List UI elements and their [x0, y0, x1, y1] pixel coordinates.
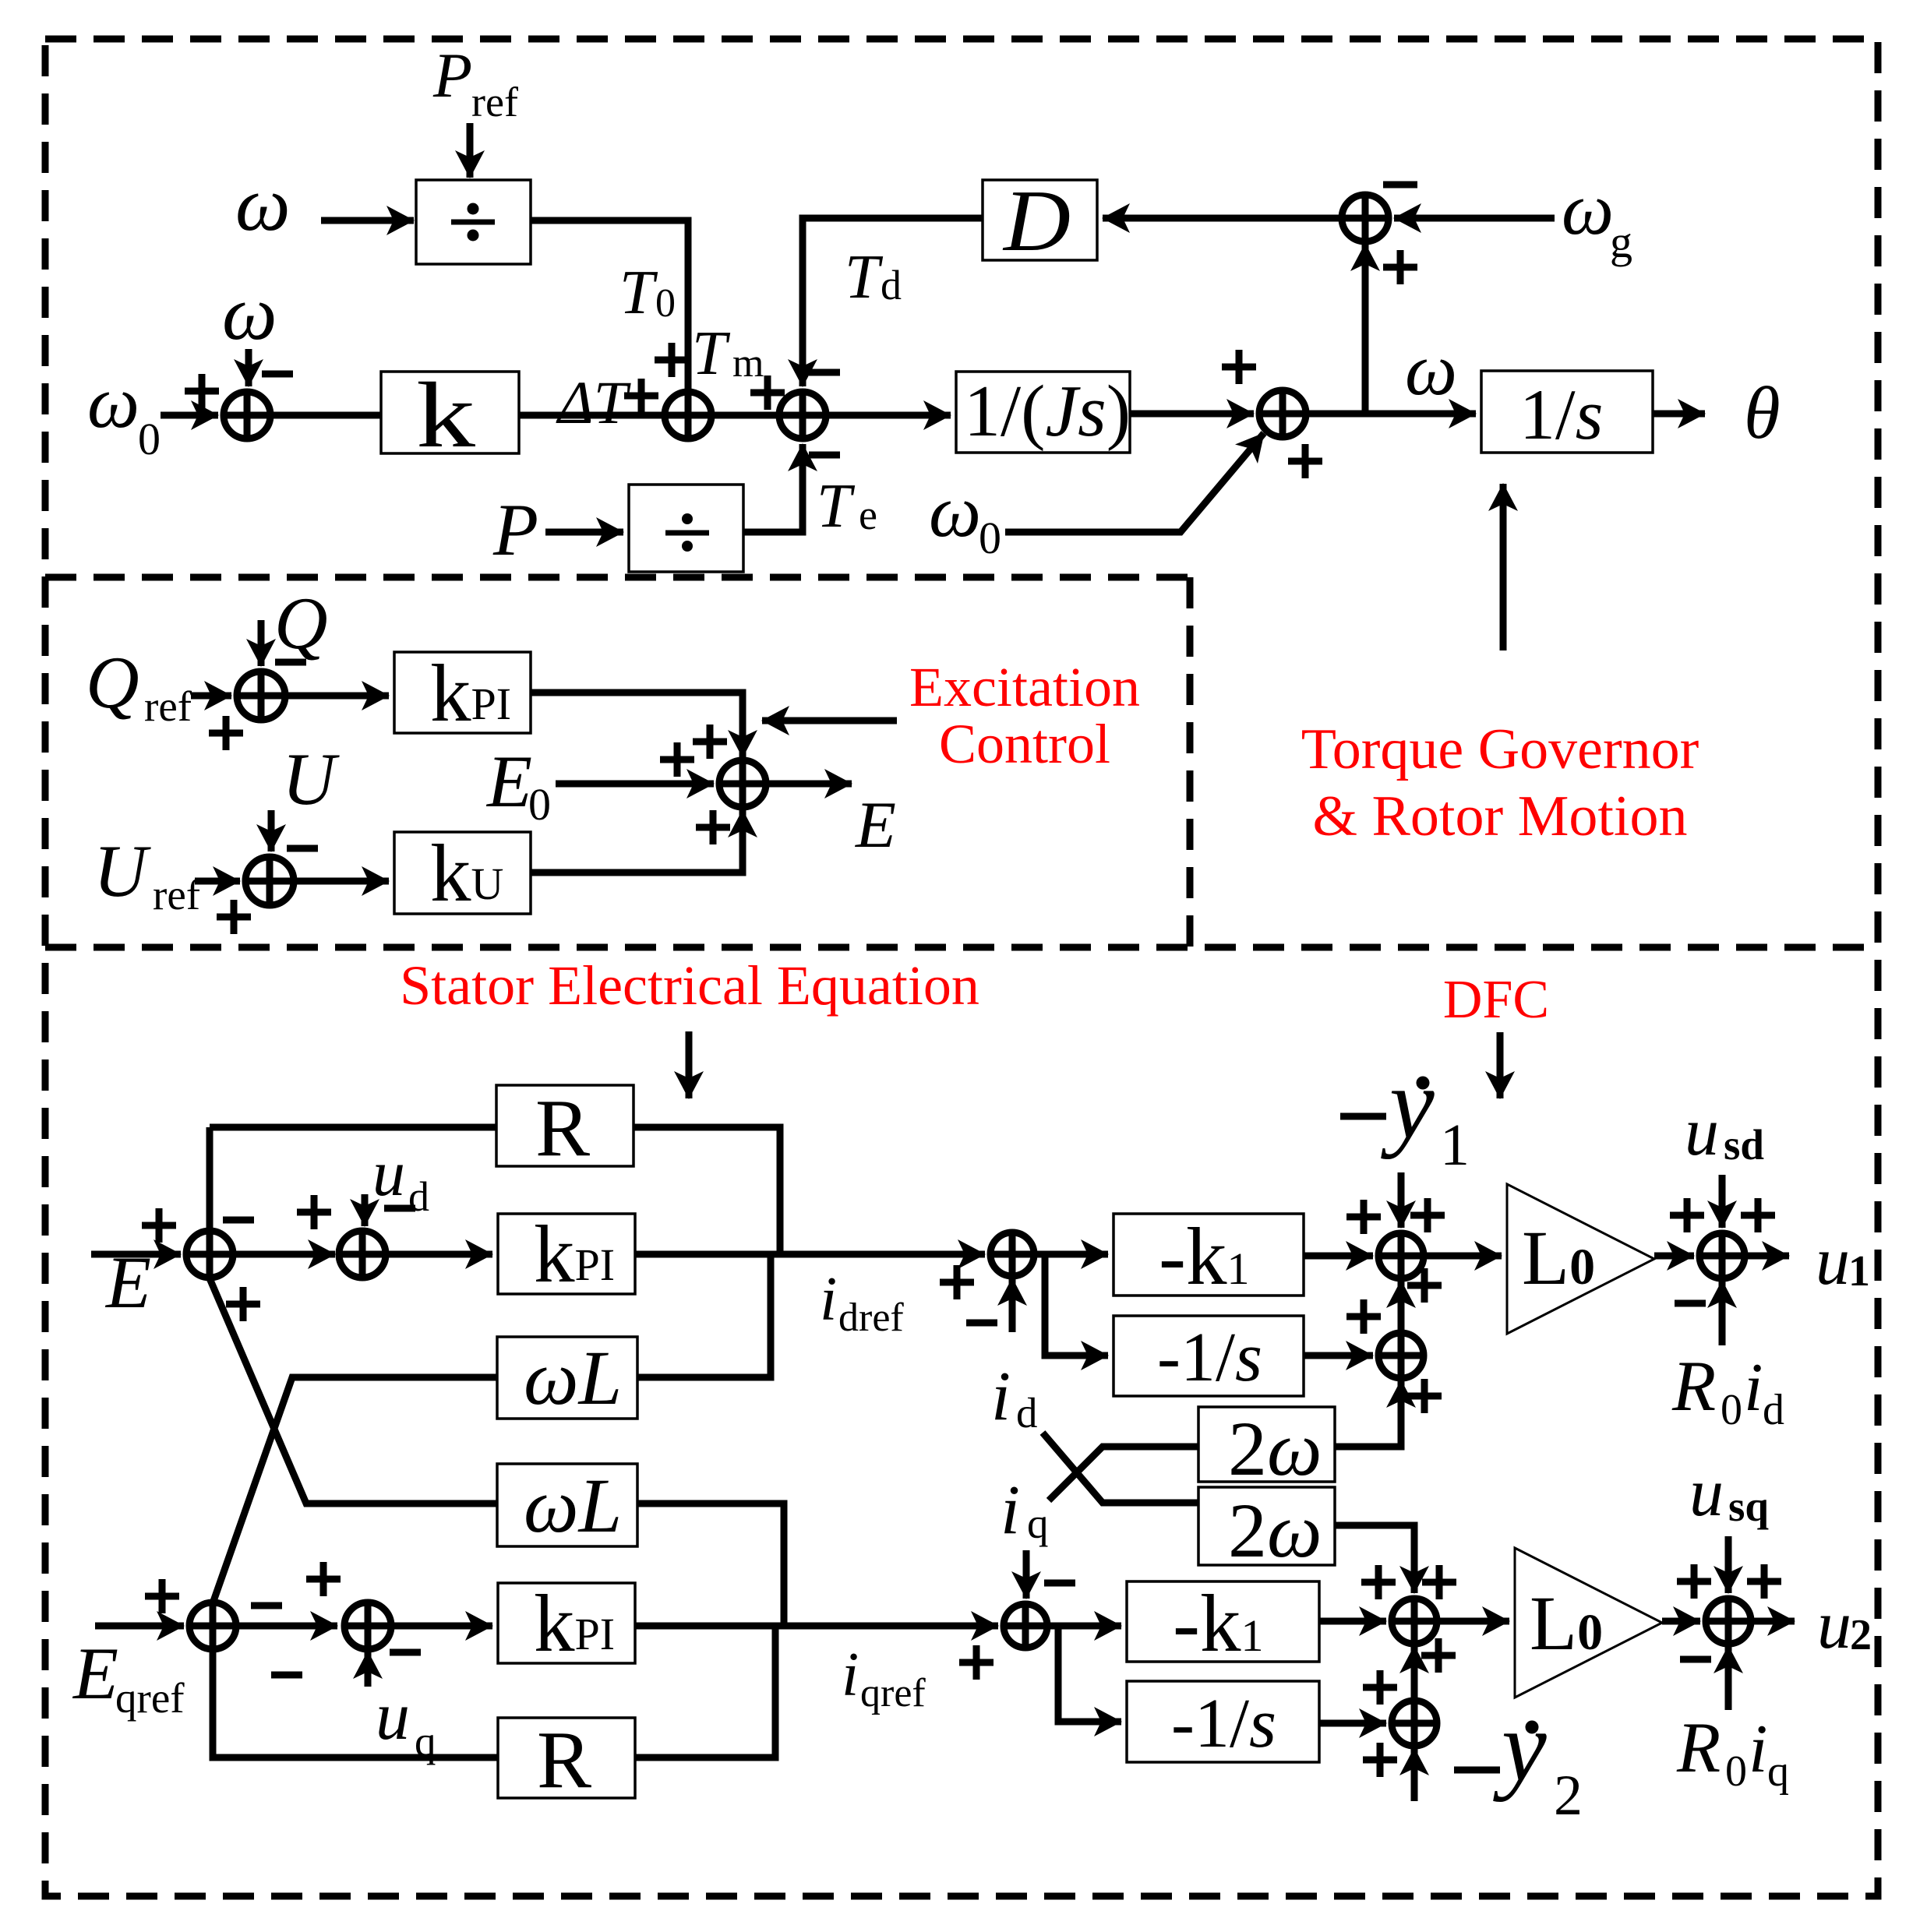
wire omega_g into junction [1394, 215, 1555, 222]
svg-text:0: 0 [528, 779, 551, 830]
wire u_sq down into u2 junction [1725, 1536, 1732, 1593]
wire u_d junction to k_PI block (d-axis) [386, 1251, 492, 1258]
svg-text:sd: sd [1724, 1121, 1764, 1169]
annotation arrow for Stator Electrical Equation [686, 1031, 693, 1098]
svg-text:i: i [842, 1641, 859, 1709]
label Te [817, 472, 877, 541]
wire k_U output to E summing junction (corner up) [531, 810, 743, 873]
plus sign for k_PI input at E junction [693, 724, 727, 759]
gain block -k1 (d-axis) [1114, 1211, 1304, 1302]
omega summing junction (integrator out + omega_0) [1259, 390, 1306, 437]
minus sign for Q input [275, 659, 306, 666]
label Tm [692, 319, 764, 388]
wire u_q junction to k_PI block (q-axis) [391, 1623, 492, 1630]
plus sign for omega branch input [1383, 250, 1417, 284]
svg-text:m: m [732, 341, 764, 386]
gain block -k1 (q-axis) [1127, 1578, 1319, 1669]
svg-text:T: T [692, 319, 731, 388]
wire branch i_dref down to -1/s block (d-axis) [1045, 1254, 1108, 1356]
minus sign for R feedback input [223, 1217, 254, 1224]
DFC sum junction 2 (q-axis, -1/s path) [1392, 1701, 1437, 1746]
wire i_q diagonal into 2omega block (upper) [1049, 1447, 1198, 1500]
wire P into divider block [545, 529, 623, 536]
plus sign for main input at u_q junction [306, 1562, 341, 1596]
plus sign for Js output input [1222, 350, 1256, 384]
wire DFC sum 1 (q) to L0 amplifier [1437, 1618, 1509, 1625]
svg-text:E: E [72, 1632, 118, 1715]
wire T0 from divider to summing junction [531, 220, 688, 392]
wire R0id up into u1 junction [1719, 1281, 1726, 1345]
svg-text:R: R [1676, 1708, 1721, 1787]
plus sign for k_U input at E junction [696, 810, 730, 844]
label -ydot2 [1454, 1690, 1583, 1828]
svg-text:2ω: 2ω [1228, 1405, 1322, 1492]
label P_ref [432, 40, 518, 125]
gain block k [381, 363, 519, 467]
wire k_PI out to i_qref junction [635, 1623, 998, 1630]
cross-multiplier block 2omega (lower) [1198, 1487, 1335, 1574]
plus sign for 2omega input (q) [1422, 1565, 1456, 1599]
wire E_qref into E_qref error junction [95, 1623, 184, 1630]
plus sign for Q_ref input [209, 716, 243, 750]
integral block -1/s (q-axis) [1127, 1681, 1319, 1762]
PI block k_PI (d-axis) [498, 1208, 635, 1299]
svg-text:DFC: DFC [1443, 970, 1549, 1030]
plus sign for lower input [1407, 1268, 1442, 1303]
svg-text:R: R [535, 1082, 590, 1173]
amplifier triangle L0 (d-axis) [1507, 1184, 1654, 1334]
voltage gain block k_U [394, 827, 531, 918]
svg-text:1/s: 1/s [1519, 375, 1603, 454]
label Q_ref [86, 641, 192, 730]
label omega_g [1562, 167, 1632, 267]
PI gain block k_PI [394, 647, 531, 739]
svg-text:2ω: 2ω [1228, 1487, 1322, 1574]
svg-text:q: q [415, 1718, 436, 1765]
wire omega-L (2) feedback: i_qref tap up to block and diagonal to E junction [210, 1278, 784, 1626]
wire E junction to u_d junction [233, 1251, 335, 1258]
wire i_qref junction to -k1 block (q-axis) [1047, 1623, 1121, 1630]
wire 1/(Js) to omega junction [1130, 411, 1254, 418]
wire E into E error junction [91, 1251, 181, 1258]
wire omega into divider block [321, 217, 414, 224]
wire 2omega (lower) output into -k1 junction (q-axis) [1335, 1525, 1414, 1593]
svg-text:ω: ω [87, 361, 139, 443]
svg-text:d: d [1016, 1389, 1038, 1437]
plus sign for DeltaT input [624, 379, 658, 413]
integrator block 1/s [1481, 371, 1653, 454]
u_q summing junction [344, 1602, 391, 1649]
plus sign before i_qref junction [959, 1645, 994, 1680]
plus sign for T0 input [655, 343, 689, 377]
wire 1/s to theta output [1653, 411, 1705, 418]
plus sign for omega_0 input [185, 374, 219, 408]
label R0iq [1676, 1708, 1789, 1796]
wire k to torque junction, label DeltaT [519, 412, 665, 419]
svg-text:ω: ω [929, 470, 981, 552]
svg-text:u: u [372, 1137, 405, 1210]
plus sign for E input [142, 1208, 176, 1243]
damping block D [983, 173, 1097, 270]
annotation text Torque Governor & Rotor Motion [1301, 717, 1699, 848]
plus sign for lower input (q) [1421, 1638, 1456, 1673]
wire u_sd down into u1 junction [1719, 1175, 1726, 1228]
svg-text:ΔT: ΔT [556, 368, 631, 436]
svg-text:i: i [991, 1358, 1011, 1435]
minus sign for R0iq input [1680, 1656, 1711, 1663]
plus sign for omega_0 input [1288, 444, 1322, 478]
integral block -1/s (d-axis) [1114, 1316, 1304, 1396]
plus sign for E_qref input [145, 1579, 179, 1613]
label omega_0 [87, 361, 161, 464]
divider block (P_ref / omega) [416, 180, 531, 264]
svg-text:R: R [537, 1714, 591, 1805]
svg-text:ω: ω [1405, 328, 1457, 411]
wire -1/s junction output up into DFC sum junction 1 [1398, 1281, 1405, 1333]
svg-text:u: u [376, 1679, 410, 1754]
svg-text:ωL: ωL [524, 1334, 622, 1421]
inductance block omega-L (first) [497, 1334, 637, 1421]
wire -k1 out into DFC sum junction (q-axis) [1319, 1618, 1386, 1625]
cross-multiplier block 2omega (upper) [1198, 1405, 1335, 1492]
wire junction to k block [270, 412, 381, 419]
svg-text:Q: Q [274, 582, 328, 665]
wire torque junction to 1/(Js) block [826, 412, 951, 419]
wire omega_0 diagonal into omega junction [1005, 433, 1264, 532]
svg-text:R: R [1671, 1346, 1716, 1426]
plus sign for -1/s input (q) [1363, 1670, 1397, 1705]
i_qref summing junction [1004, 1604, 1047, 1648]
svg-text:1: 1 [1848, 1247, 1870, 1296]
label Td [845, 243, 902, 312]
svg-text:Stator Electrical Equation: Stator Electrical Equation [400, 954, 979, 1017]
summing junction (omega_0 - omega) [224, 392, 270, 439]
svg-text:0: 0 [979, 513, 1001, 563]
minus sign for R feedback at E_qref junction [271, 1672, 302, 1679]
svg-text:i: i [1749, 1712, 1767, 1787]
svg-text:y: y [1381, 1048, 1435, 1160]
svg-text:P: P [492, 488, 538, 571]
svg-text:& Rotor Motion: & Rotor Motion [1312, 784, 1687, 848]
annotation arrow for Torque Governor section [1500, 484, 1507, 650]
label i_q [1001, 1472, 1049, 1549]
minus sign for u_d input [384, 1205, 415, 1212]
label u_d [372, 1137, 429, 1220]
label i_dref [820, 1265, 904, 1340]
plus sign before i_dref junction [940, 1265, 974, 1299]
svg-text:U: U [94, 830, 151, 912]
svg-text:i: i [820, 1265, 837, 1334]
minus sign for i_d input [966, 1320, 997, 1327]
svg-text:-1/s: -1/s [1171, 1685, 1276, 1762]
annotation arrow for DFC [1497, 1032, 1504, 1098]
minus sign for U input [287, 845, 318, 852]
annotation text Excitation Control [909, 656, 1140, 775]
DFC sum junction 1 (q-axis) [1392, 1599, 1437, 1644]
DFC sum junction 2 (d-axis, -1/s path) [1378, 1333, 1424, 1378]
svg-text:Torque Governor: Torque Governor [1301, 717, 1699, 781]
svg-text:ω: ω [235, 160, 291, 247]
svg-text:Control: Control [939, 713, 1110, 775]
svg-text:ref: ref [471, 79, 518, 125]
wire junction to D block [1103, 215, 1342, 222]
divider block (P / omega = Te) [629, 485, 743, 572]
svg-text:dref: dref [838, 1296, 904, 1340]
minus sign for Te input [809, 452, 840, 459]
plus sign for -k1 input [1346, 1200, 1381, 1234]
wire junction to k_U block [294, 878, 389, 885]
summing junction (T0 + DeltaT = Tm) [665, 392, 711, 439]
wire -ydot1 down into DFC sum junction [1398, 1172, 1405, 1228]
svg-text:ωL: ωL [524, 1462, 622, 1549]
wire -1/s out into DFC sum junction 2 (q) [1319, 1720, 1386, 1727]
label u2 [1817, 1588, 1872, 1663]
svg-text:ref: ref [144, 682, 192, 730]
svg-text:0: 0 [138, 414, 161, 464]
plus sign right of -ydot1 arrow [1410, 1198, 1445, 1232]
resistance block R (d-axis) [496, 1082, 634, 1173]
torque summing junction (Tm - Td - Te) [779, 392, 826, 439]
svg-text:q: q [1027, 1500, 1049, 1547]
wire L0 to u2 junction [1662, 1618, 1700, 1625]
svg-text:i: i [1744, 1350, 1763, 1426]
minus sign for omega-L input at E_qref junction [251, 1602, 282, 1609]
svg-text:D: D [1002, 173, 1071, 270]
E_qref error summing junction (q-axis) [189, 1602, 236, 1649]
label omega_0 (added to speed) [929, 470, 1001, 563]
u_d summing junction [339, 1231, 386, 1278]
svg-text:T: T [817, 472, 856, 541]
minus sign for omega input [262, 371, 293, 378]
svg-text:u: u [1817, 1588, 1851, 1663]
u2 output junction [1706, 1599, 1751, 1644]
label u1 [1816, 1224, 1870, 1299]
Q error summing junction [237, 672, 285, 720]
svg-text:2: 2 [1554, 1764, 1583, 1828]
wire -k1 out into DFC sum junction (d-axis) [1304, 1253, 1373, 1260]
wire omega down into speed error junction [245, 349, 252, 386]
plus sign for U_ref input [217, 900, 251, 934]
DFC sum junction 1 (d-axis) [1378, 1233, 1424, 1278]
i_dref summing junction [990, 1232, 1034, 1276]
wire junction to k_PI block [285, 693, 389, 700]
E summing junction [719, 760, 766, 807]
label i_d [991, 1358, 1038, 1437]
plus sign for 2omega input [1407, 1379, 1442, 1413]
label u_sd [1685, 1095, 1764, 1170]
svg-text:ω: ω [222, 270, 277, 356]
minus sign for i_q input [1044, 1580, 1075, 1587]
wire L0 to u1 junction [1654, 1253, 1694, 1260]
svg-text:g: g [1610, 217, 1632, 267]
inductance block omega-L (second) [497, 1462, 637, 1549]
svg-text:i: i [1001, 1472, 1020, 1549]
omega_g comparison junction [1342, 195, 1389, 241]
svg-text:u: u [1816, 1224, 1850, 1299]
plus sign for Tm input [750, 375, 785, 410]
wire Te from divider up into torque junction [743, 444, 803, 532]
annotation arrow for Excitation Control [762, 717, 897, 724]
svg-text:Excitation: Excitation [909, 656, 1140, 718]
svg-text:d: d [881, 262, 902, 308]
plus sign for main input at u_d junction [297, 1195, 331, 1229]
svg-text:d: d [408, 1173, 429, 1220]
svg-text:1/(Js): 1/(Js) [964, 371, 1131, 452]
wire P_ref into divider block [467, 123, 474, 178]
u1 output junction [1699, 1233, 1745, 1278]
plus sign for -ydot2 input [1363, 1743, 1397, 1777]
wire i_dref junction to -k1 block (d-axis) [1034, 1251, 1108, 1258]
svg-text:e: e [859, 492, 877, 538]
svg-text:1: 1 [1440, 1112, 1470, 1178]
svg-text:u: u [1689, 1455, 1724, 1531]
svg-text:θ: θ [1744, 372, 1781, 454]
label u_sq [1689, 1455, 1769, 1531]
label -ydot1 [1340, 1048, 1470, 1178]
wire R0iq up into u2 junction [1725, 1646, 1732, 1710]
svg-text:sq: sq [1728, 1482, 1769, 1530]
svg-text:ref: ref [153, 871, 201, 918]
svg-text:E: E [855, 788, 896, 862]
wire R feedback path (q-axis, i_qref to R to E_qref junction) [213, 1626, 775, 1757]
wire branch i_qref down to -1/s block (q-axis) [1058, 1626, 1121, 1722]
minus sign for omega_g input [1383, 182, 1417, 189]
wire i_q down into i_qref junction [1023, 1550, 1030, 1599]
svg-text:qref: qref [115, 1674, 185, 1722]
wire -1/s junction output up into DFC sum junction 1 (q) [1411, 1646, 1418, 1701]
wire k_PI out to i_dref junction [635, 1251, 985, 1258]
svg-text:0: 0 [655, 281, 676, 326]
svg-text:-1/s: -1/s [1157, 1319, 1262, 1396]
svg-text:0: 0 [1721, 1386, 1742, 1434]
plus sign for omega-L cross input [226, 1287, 260, 1321]
svg-text:k: k [416, 363, 475, 467]
plus sign for -k1 input (q) [1361, 1565, 1396, 1599]
wire omega-L (1) feedback: i_dref tap down to block and diagonal to E_qref junction [213, 1254, 771, 1603]
label E_qref [72, 1632, 185, 1722]
U error summing junction [245, 857, 294, 905]
wire Q down into Q error junction [258, 620, 265, 666]
wire E_0 into E summing junction [556, 781, 714, 788]
wire -ydot2 up into DFC sum junction 2 [1411, 1748, 1418, 1801]
dashed divider between upper sections and Stator/DFC section [45, 944, 1878, 951]
label E_0 [485, 740, 551, 830]
svg-text:T: T [845, 243, 884, 312]
wire u_q up into junction [365, 1652, 372, 1687]
dashed border of Excitation Control box (right edge) [1187, 577, 1194, 947]
wire u1 output [1745, 1253, 1789, 1260]
svg-text:d: d [1763, 1386, 1784, 1434]
svg-text:Q: Q [86, 641, 139, 724]
wire E_qref junction to u_q junction [236, 1623, 337, 1630]
svg-text:U: U [282, 738, 340, 820]
plus signs around u_sq input [1677, 1564, 1781, 1599]
resistance block R (q-axis) [498, 1714, 635, 1805]
minus sign for Td input [809, 369, 840, 376]
wire -1/s out into DFC sum junction 2 [1304, 1352, 1373, 1359]
plus sign for -1/s input [1346, 1299, 1381, 1334]
svg-text:y: y [1493, 1690, 1547, 1803]
plus sign for E_0 input [660, 742, 694, 777]
wire k_PI output to E summing junction (corner down) [531, 693, 743, 757]
wire i_d diagonal into 2omega block (lower) [1043, 1433, 1198, 1503]
wire R feedback path (i_dref to R to E junction) [210, 1127, 780, 1254]
wire Q_ref into junction [191, 693, 231, 700]
wire E output [766, 781, 852, 788]
svg-text:qref: qref [860, 1671, 926, 1715]
wire U down into U error junction [268, 810, 275, 851]
svg-text:T: T [619, 259, 658, 327]
wire u2 output [1751, 1618, 1795, 1625]
label i_qref [842, 1641, 926, 1715]
svg-text:2: 2 [1850, 1611, 1872, 1659]
svg-text:u: u [1685, 1095, 1719, 1170]
wire omega branch up into omega_g junction [1362, 244, 1369, 414]
wire Tm junction to torque sum junction [711, 412, 779, 419]
svg-text:q: q [1767, 1747, 1789, 1796]
dashed border of Excitation Control box (top edge) [45, 574, 1190, 581]
wire 2omega (upper) output into -1/s junction (d-axis) [1335, 1380, 1401, 1447]
wire u_d down into junction [362, 1194, 369, 1226]
amplifier triangle L0 (q-axis) [1515, 1548, 1662, 1698]
PI block k_PI (q-axis) [498, 1578, 635, 1669]
inertia block 1/(Js) [956, 371, 1131, 453]
wire omega_0 into speed error junction [161, 412, 218, 419]
E error summing junction (d-axis) [186, 1231, 233, 1278]
svg-text:0: 0 [1725, 1747, 1747, 1796]
wire i_d up into i_dref junction [1009, 1278, 1016, 1332]
label T0 [619, 259, 676, 327]
svg-text:ω: ω [1562, 167, 1614, 250]
minus sign for R0id input [1675, 1300, 1706, 1307]
label U_ref [94, 830, 201, 918]
label u_q [376, 1679, 436, 1765]
wire omega junction to 1/s block with branch node [1306, 411, 1476, 418]
minus sign for u_q input [390, 1649, 421, 1656]
label R0id [1671, 1346, 1784, 1434]
svg-text:P: P [432, 40, 472, 111]
wire DFC sum 1 to L0 amplifier [1424, 1253, 1502, 1260]
svg-text:E: E [485, 740, 532, 823]
wire Td from D block down into torque junction [803, 218, 983, 386]
plus signs around u_sd input [1670, 1198, 1775, 1232]
wire U_ref into junction [195, 878, 240, 885]
